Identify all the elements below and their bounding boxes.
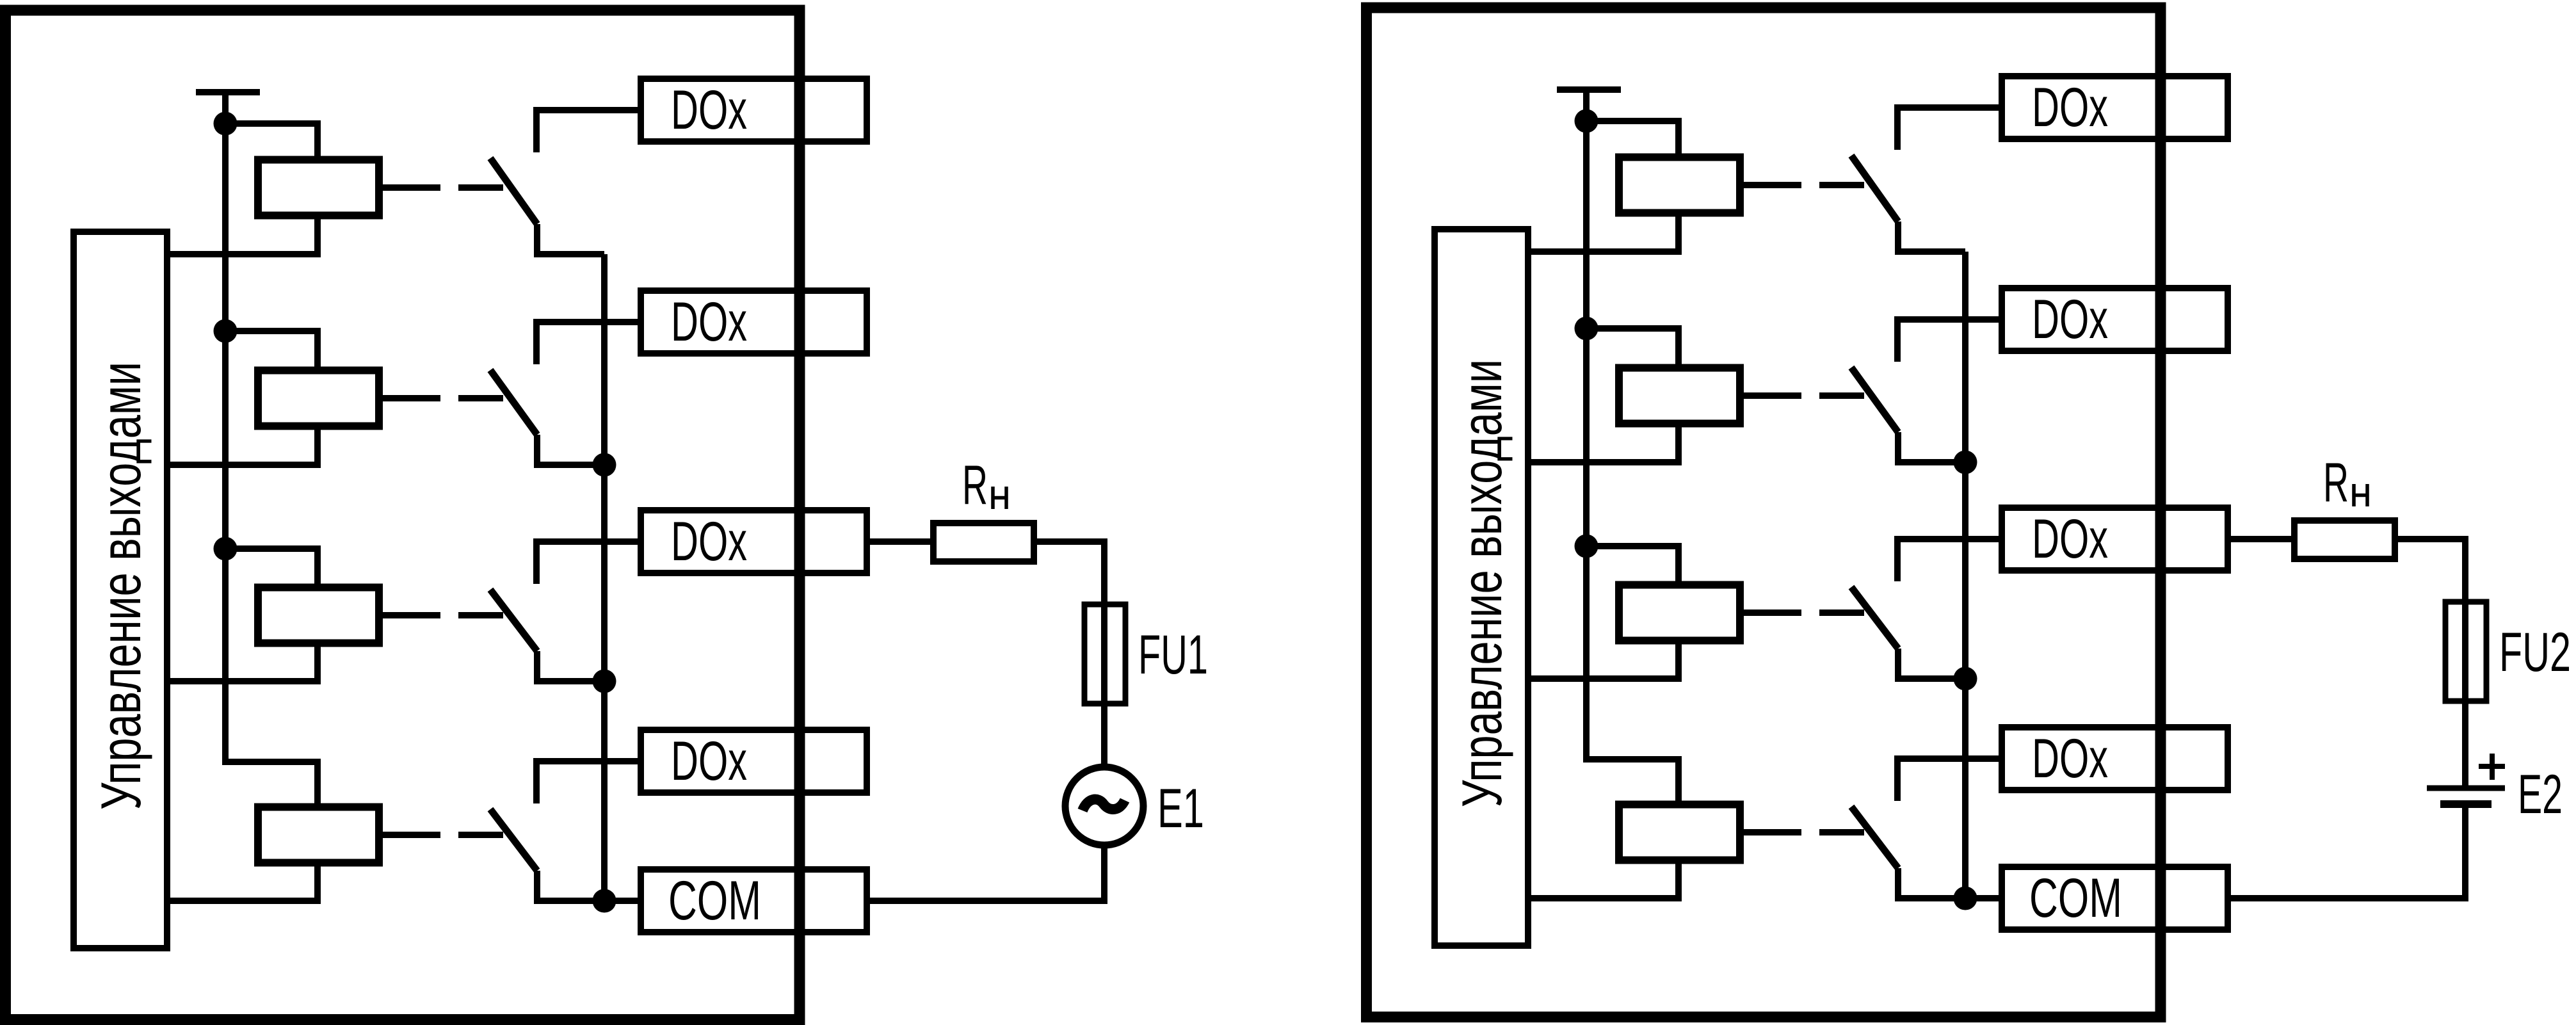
svg-text:Управление выходами: Управление выходами xyxy=(1450,359,1513,807)
wire DOx to load RH (module 2) xyxy=(2230,536,2294,542)
relay actuator dash xyxy=(1819,609,1864,616)
relay actuator dashed link 2 xyxy=(1740,392,1801,399)
wire switch S2 pivot to common bus xyxy=(537,435,604,465)
wire dot to coil 3 xyxy=(1586,546,1678,585)
svg-text:DOx: DOx xyxy=(2032,77,2108,138)
terminal DOx row 4 xyxy=(641,730,867,793)
control block (Управление выходами) xyxy=(74,232,167,948)
relay coil K2 xyxy=(258,371,379,426)
svg-text:DOx: DOx xyxy=(2032,289,2108,350)
relay actuator dash xyxy=(458,612,503,618)
wire coil 3 to control block xyxy=(170,643,318,682)
switch contact S4 fixed hook xyxy=(536,761,638,803)
wire RH to fuse FU2 xyxy=(2395,539,2465,788)
wire COM dot to terminal xyxy=(1965,895,1999,901)
svg-text:DOx: DOx xyxy=(2032,728,2108,789)
wire switch S4 pivot to common bus xyxy=(1898,868,1965,898)
wire common bus xyxy=(601,254,608,901)
wire dot to coil 1 xyxy=(1586,121,1678,157)
wire coil 2 to control block xyxy=(170,426,318,465)
control block (Управление выходами) xyxy=(1435,229,1528,946)
switch S1 blade xyxy=(490,158,537,224)
wire coil 1 to control block xyxy=(170,216,318,255)
AC tilde symbol xyxy=(1083,800,1125,811)
wire RH to fuse FU1 xyxy=(1034,542,1104,767)
switch S2 blade xyxy=(490,370,537,435)
wire switch S1 pivot to common bus xyxy=(1898,222,1965,252)
relay coil K3 xyxy=(258,588,379,643)
switch contact S2 fixed hook xyxy=(1897,319,1999,362)
junction dot xyxy=(214,537,237,561)
switch contact S3 fixed hook xyxy=(1897,539,1999,581)
switch S1 blade xyxy=(1851,156,1898,222)
battery E2 negative plate xyxy=(2440,800,2491,808)
wire supply stub xyxy=(1583,90,1590,121)
svg-text:DOx: DOx xyxy=(671,511,747,572)
junction dot COM node xyxy=(1954,887,1977,910)
battery plus sign xyxy=(2479,754,2505,780)
terminal DOx row 1 xyxy=(2002,76,2228,139)
internal supply bar xyxy=(196,89,260,95)
terminal DOx row 1 xyxy=(641,79,867,141)
relay coil K1 xyxy=(1619,157,1740,213)
relay coil K3 xyxy=(1619,585,1740,641)
wire dot to coil 2 xyxy=(1586,328,1678,368)
terminal COM row 5 xyxy=(2002,867,2228,930)
svg-text:DOx: DOx xyxy=(671,730,747,792)
junction dot xyxy=(214,112,237,136)
wire supply stub xyxy=(222,92,229,124)
relay coil K2 xyxy=(1619,368,1740,424)
terminal DOx row 4 xyxy=(2002,727,2228,790)
resistor RH (load) xyxy=(933,523,1034,561)
relay actuator dashed link 3 xyxy=(379,612,440,618)
relay actuator dashed link 3 xyxy=(1740,609,1801,616)
junction dot xyxy=(214,319,237,343)
module 2 enclosure xyxy=(1367,8,2161,1017)
label RH subscript (module 2) xyxy=(2354,484,2367,506)
wire switch S3 pivot to common bus xyxy=(537,651,604,681)
relay coil K4 xyxy=(258,807,379,863)
wire E2 to COM (module 2) xyxy=(2230,804,2465,898)
relay coil K1 xyxy=(258,160,379,216)
svg-text:DOx: DOx xyxy=(671,79,747,141)
relay actuator dashed link 4 xyxy=(379,832,440,838)
battery E2 positive plate xyxy=(2427,786,2505,791)
terminal DOx row 2 xyxy=(641,291,867,353)
switch S2 blade xyxy=(1851,367,1898,432)
switch contact S4 fixed hook xyxy=(1897,759,1999,801)
svg-text:COM: COM xyxy=(2029,868,2122,929)
relay actuator dash xyxy=(458,184,503,191)
switch S3 blade xyxy=(490,590,537,651)
relay actuator dash xyxy=(458,395,503,401)
wire common bus xyxy=(1962,252,1968,898)
wire switch S4 pivot to common bus xyxy=(537,871,604,901)
svg-text:COM: COM xyxy=(668,870,761,932)
wire DOx to load RH xyxy=(869,538,933,545)
junction dot COM node xyxy=(593,889,616,913)
wire dot to coil 3 xyxy=(225,549,318,588)
svg-text:FU1: FU1 xyxy=(1138,624,1208,686)
junction dot common bus 1 xyxy=(593,453,616,477)
wire supply bus xyxy=(1586,121,1678,805)
wire coil 2 to control block xyxy=(1531,424,1678,463)
relay actuator dashed link 1 xyxy=(1740,182,1801,188)
resistor RH (load, module 2) xyxy=(2294,521,2395,559)
wire E1 to COM xyxy=(869,845,1104,901)
svg-text:E2: E2 xyxy=(2518,764,2563,825)
fuse FU1 xyxy=(1084,604,1125,704)
relay coil K4 xyxy=(1619,805,1740,860)
internal supply bar xyxy=(1557,86,1621,93)
wire dot to coil 2 xyxy=(225,331,318,371)
relay actuator dashed link 1 xyxy=(379,184,440,191)
svg-text:R: R xyxy=(962,455,988,516)
wire supply bus xyxy=(225,124,318,808)
wire coil 4 to control block xyxy=(1531,860,1678,899)
relay actuator dash xyxy=(1819,392,1864,399)
relay actuator dashed link 4 xyxy=(1740,829,1801,835)
relay actuator dash xyxy=(1819,182,1864,188)
label RH subscript xyxy=(993,487,1006,509)
fuse FU2 xyxy=(2445,602,2486,701)
wire COM dot to terminal xyxy=(604,898,638,904)
module 1 enclosure xyxy=(6,10,800,1020)
terminal DOx row 2 xyxy=(2002,288,2228,351)
svg-text:FU2: FU2 xyxy=(2499,622,2571,683)
switch contact S1 fixed hook xyxy=(536,110,638,152)
junction dot xyxy=(1575,317,1598,341)
junction dot common bus 1 xyxy=(1954,451,1977,474)
relay actuator dashed link 2 xyxy=(379,395,440,401)
wire coil 3 to control block xyxy=(1531,641,1678,679)
wire switch S2 pivot to common bus xyxy=(1898,432,1965,462)
switch contact S3 fixed hook xyxy=(536,542,638,584)
wire coil 4 to control block xyxy=(170,863,318,901)
terminal DOx row 3 xyxy=(641,510,867,573)
junction dot common bus 2 xyxy=(1954,667,1977,691)
wire dot to coil 1 xyxy=(225,124,318,160)
relay actuator dash xyxy=(1819,829,1864,835)
svg-text:DOx: DOx xyxy=(2032,508,2108,570)
wire coil 1 to control block xyxy=(1531,213,1678,252)
switch S4 blade xyxy=(490,809,537,871)
AC source E1 xyxy=(1065,767,1143,845)
switch contact S1 fixed hook xyxy=(1897,108,1999,150)
wire switch S1 pivot to common bus xyxy=(537,224,604,254)
wire switch S3 pivot to common bus xyxy=(1898,649,1965,679)
terminal COM row 5 xyxy=(641,869,867,932)
switch S3 blade xyxy=(1851,587,1898,649)
terminal DOx row 3 xyxy=(2002,508,2228,570)
svg-text:Управление выходами: Управление выходами xyxy=(89,362,152,810)
switch contact S2 fixed hook xyxy=(536,322,638,364)
switch S4 blade xyxy=(1851,807,1898,868)
svg-text:DOx: DOx xyxy=(671,291,747,353)
junction dot xyxy=(1575,535,1598,558)
svg-text:R: R xyxy=(2323,452,2349,513)
junction dot xyxy=(1575,109,1598,133)
svg-text:E1: E1 xyxy=(1157,778,1204,839)
relay actuator dash xyxy=(458,832,503,838)
junction dot common bus 2 xyxy=(593,670,616,693)
